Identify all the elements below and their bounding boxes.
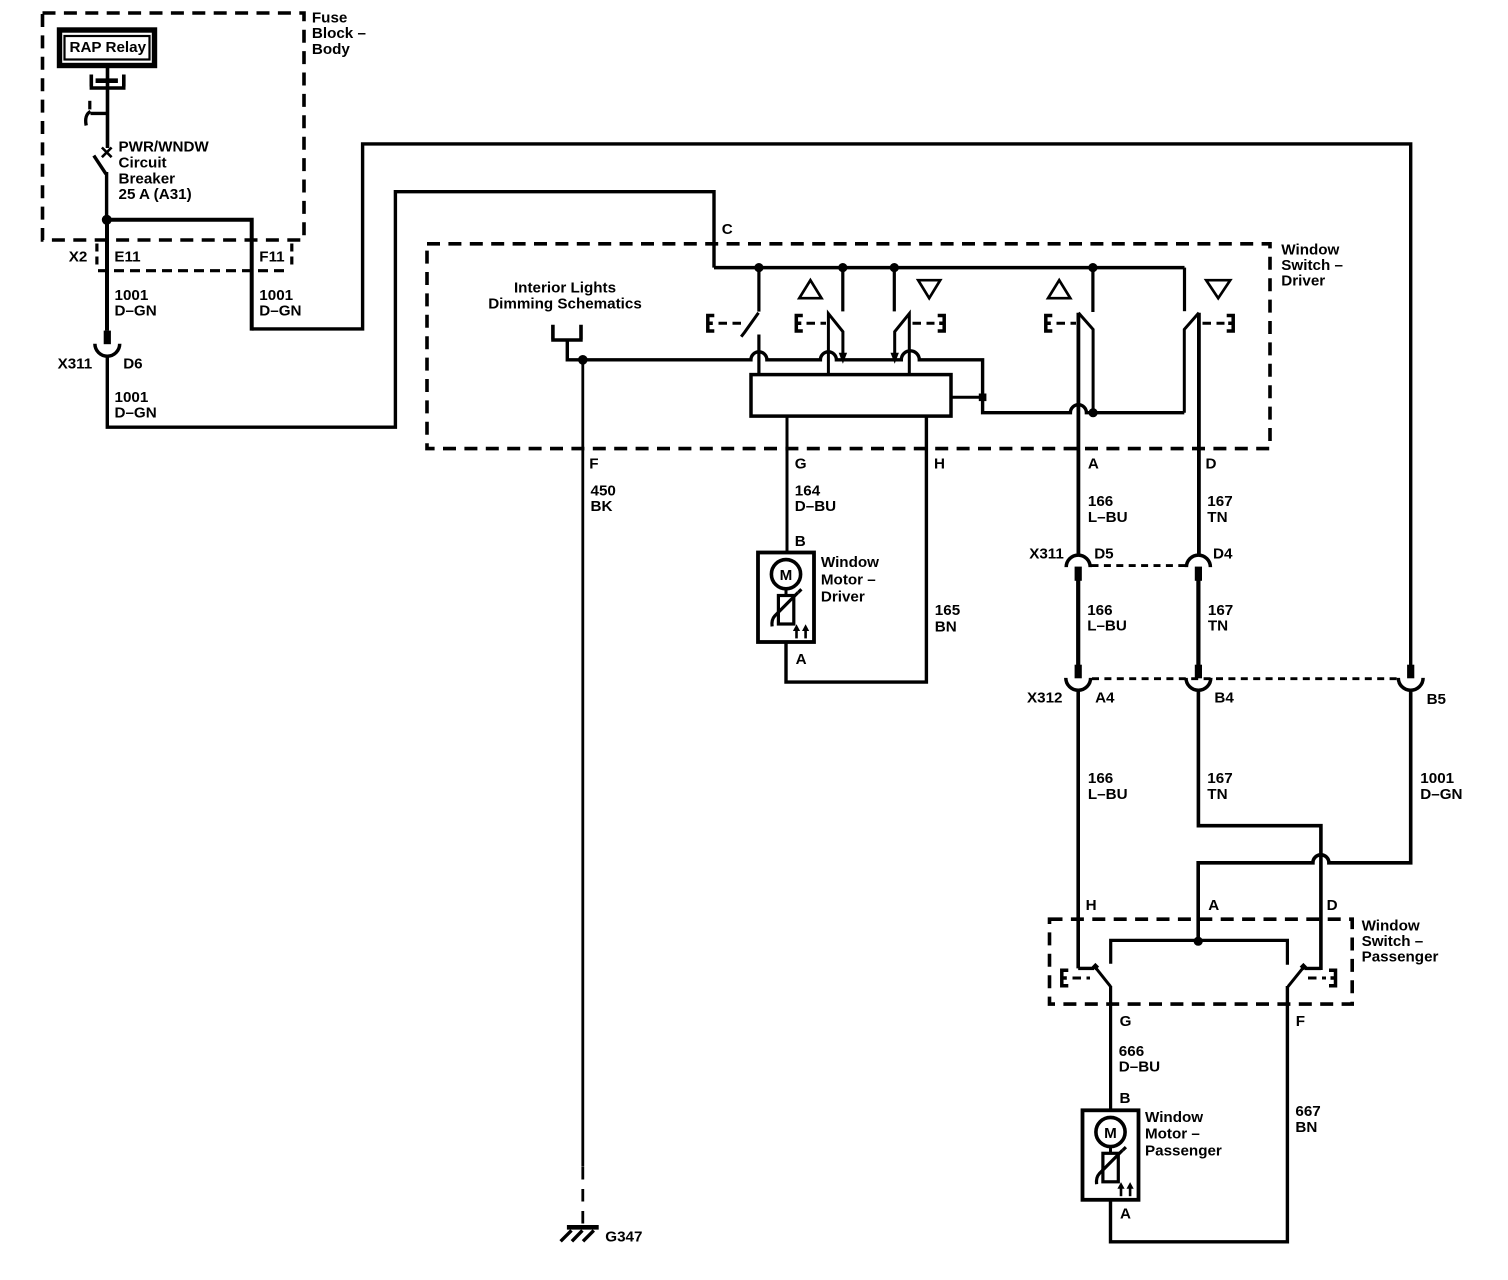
- switch 1 blade: [741, 313, 758, 337]
- svg-text:164: 164: [795, 482, 821, 499]
- svg-text:X2: X2: [69, 248, 88, 265]
- svg-text:Motor –: Motor –: [1145, 1126, 1200, 1143]
- svg-text:D–BU: D–BU: [795, 498, 836, 515]
- pin C: [722, 221, 733, 238]
- pin A (driver): [1088, 456, 1099, 473]
- svg-text:Block –: Block –: [312, 25, 366, 42]
- label 1001 D-GN (B5): [1420, 770, 1462, 803]
- label 1001 D-GN (X311 out): [115, 389, 157, 422]
- svg-text:1001: 1001: [115, 287, 149, 304]
- label 1001 D-GN (E11): [115, 287, 157, 320]
- label 167 TN (1): [1207, 493, 1232, 526]
- wire 1001 D-GN to C pin: [107, 192, 714, 428]
- svg-text:M: M: [1104, 1125, 1117, 1142]
- dashed link X312 row: [1092, 677, 1397, 680]
- junction node sw3: [890, 263, 899, 272]
- down arrow symbol 1: [918, 280, 940, 298]
- junction node interior lights: [578, 355, 588, 365]
- pin A (driver motor): [796, 651, 807, 668]
- svg-text:Fuse: Fuse: [312, 10, 347, 27]
- switch 1 lower stub: [757, 335, 760, 375]
- junction node sw4: [1088, 263, 1097, 272]
- pin D5: [1094, 545, 1114, 562]
- label 167 TN (2): [1208, 602, 1233, 635]
- svg-text:Interior Lights: Interior Lights: [514, 280, 616, 297]
- passenger switch left corner: [1078, 967, 1094, 970]
- svg-text:Window: Window: [1145, 1109, 1203, 1126]
- wire 164 D-BU: [786, 416, 789, 552]
- svg-text:Circuit: Circuit: [119, 155, 167, 172]
- svg-text:450: 450: [591, 482, 616, 499]
- passenger switch right linkage: [1308, 970, 1336, 986]
- pin D (passenger): [1327, 897, 1338, 914]
- label G347: [605, 1229, 642, 1246]
- label Window Motor - Driver: [821, 554, 879, 606]
- svg-text:D: D: [1327, 897, 1338, 914]
- dashed link X311 row: [1092, 564, 1186, 567]
- passenger contact rail: [1111, 940, 1288, 964]
- wire 166 L-BU (mid): [1076, 580, 1080, 665]
- svg-text:F11: F11: [259, 248, 285, 265]
- switch 2 stub: [841, 268, 844, 312]
- passenger switch left pivot: [1092, 963, 1099, 970]
- label Window Switch - Passenger: [1362, 917, 1439, 965]
- pin D6: [123, 355, 142, 372]
- label PWR/WNDW Circuit Breaker: [119, 139, 210, 203]
- window motor passenger: [1083, 1110, 1139, 1200]
- up arrow symbol 1: [799, 280, 821, 298]
- svg-text:667: 667: [1295, 1103, 1320, 1120]
- relay switch arm: [86, 101, 108, 126]
- svg-text:G: G: [1120, 1013, 1132, 1030]
- svg-text:166: 166: [1088, 770, 1113, 787]
- svg-text:166: 166: [1088, 493, 1113, 510]
- window motor driver: [758, 553, 814, 643]
- switch 3 linkage: [913, 316, 945, 332]
- svg-text:B5: B5: [1427, 691, 1447, 708]
- wire 167 TN (D pin): [1197, 313, 1201, 555]
- svg-text:D: D: [1206, 456, 1217, 473]
- pin B (driver motor): [795, 533, 806, 550]
- svg-text:Motor –: Motor –: [821, 571, 876, 588]
- label Window Switch - Driver: [1281, 241, 1343, 289]
- svg-text:L–BU: L–BU: [1088, 509, 1128, 526]
- pin A4: [1095, 690, 1115, 707]
- wire 666 D-BU: [1109, 986, 1112, 1110]
- svg-text:1001: 1001: [259, 287, 293, 304]
- label X2: [69, 248, 88, 265]
- svg-text:D4: D4: [1213, 545, 1233, 562]
- wire 1001 D-GN from E11: [105, 220, 109, 331]
- svg-text:Window: Window: [1362, 917, 1420, 934]
- svg-text:D5: D5: [1094, 545, 1114, 562]
- wire breaker to junction: [105, 172, 108, 220]
- pin F: [589, 456, 598, 473]
- svg-text:M: M: [780, 567, 793, 584]
- label 166 L-BU (3): [1088, 770, 1128, 803]
- svg-text:Switch –: Switch –: [1281, 257, 1343, 274]
- connector X311 D5: [1066, 555, 1090, 581]
- connector X312 B5: [1398, 665, 1423, 691]
- svg-text:F: F: [589, 456, 598, 473]
- svg-text:Passenger: Passenger: [1145, 1143, 1222, 1160]
- pin B4: [1214, 690, 1234, 707]
- connector X2 row: [97, 244, 292, 271]
- switch 2 arrowhead: [839, 353, 847, 364]
- wire interior lights bus: [583, 351, 1185, 413]
- pin B (passenger motor): [1120, 1090, 1131, 1107]
- switch 5 linkage: [1203, 316, 1234, 332]
- circuit breaker PWR/WNDW: [94, 148, 112, 175]
- wire 167 TN to passenger D: [1198, 691, 1321, 970]
- pin B5: [1427, 691, 1447, 708]
- svg-text:BN: BN: [935, 619, 957, 636]
- svg-text:Driver: Driver: [821, 589, 865, 606]
- svg-text:PWR/WNDW: PWR/WNDW: [119, 139, 210, 156]
- wire 166 L-BU (A pin): [1077, 313, 1081, 555]
- svg-text:BN: BN: [1295, 1119, 1317, 1136]
- svg-text:X311: X311: [58, 355, 93, 372]
- junction node sw1: [754, 263, 763, 272]
- connector X312 A4: [1066, 665, 1091, 691]
- svg-text:Breaker: Breaker: [119, 170, 176, 187]
- ground G347: [561, 1227, 599, 1241]
- junction node passenger A: [1194, 937, 1203, 946]
- wire 667 BN loop: [1111, 986, 1288, 1242]
- svg-text:B: B: [795, 533, 806, 550]
- label Interior Lights Dimming Schematics: [488, 280, 642, 313]
- svg-text:G: G: [795, 456, 807, 473]
- svg-text:D–GN: D–GN: [115, 405, 157, 422]
- pin H: [934, 456, 945, 473]
- label 164 D-BU: [795, 482, 836, 515]
- interior lights tap bracket: [551, 325, 583, 360]
- svg-text:D–BU: D–BU: [1119, 1059, 1160, 1076]
- svg-text:E11: E11: [114, 248, 141, 265]
- svg-text:167: 167: [1208, 602, 1233, 619]
- svg-text:B: B: [1120, 1090, 1131, 1107]
- svg-text:L–BU: L–BU: [1087, 618, 1127, 635]
- label 165 BN: [935, 602, 961, 636]
- svg-text:Driver: Driver: [1281, 273, 1325, 290]
- pin H (passenger): [1086, 897, 1097, 914]
- junction node breaker output: [102, 215, 112, 225]
- switch 4 linkage: [1046, 316, 1076, 332]
- pin A (passenger): [1208, 897, 1219, 914]
- svg-text:Dimming Schematics: Dimming Schematics: [488, 295, 642, 312]
- svg-text:1001: 1001: [1420, 770, 1454, 787]
- svg-text:A4: A4: [1095, 690, 1115, 707]
- junction node sw2: [838, 263, 847, 272]
- passenger switch left blade: [1096, 968, 1111, 986]
- svg-text:Switch –: Switch –: [1362, 933, 1424, 950]
- wire junction to F11: [107, 220, 252, 331]
- label X312 (row): [1027, 690, 1062, 707]
- wire 165 BN loop: [786, 416, 926, 682]
- wire 167 TN (mid): [1196, 580, 1200, 665]
- wire 166 L-BU to passenger H: [1076, 691, 1080, 969]
- svg-text:167: 167: [1207, 493, 1232, 510]
- label X311 (D6): [58, 355, 93, 372]
- pin F (passenger): [1296, 1013, 1305, 1030]
- connector X312 B4: [1186, 665, 1211, 691]
- label 166 L-BU (2): [1087, 602, 1127, 635]
- pin F11: [259, 248, 285, 265]
- svg-text:G347: G347: [605, 1229, 642, 1246]
- svg-text:BK: BK: [591, 498, 613, 515]
- switch assembly lead: [951, 396, 980, 399]
- svg-text:TN: TN: [1208, 618, 1228, 635]
- down arrow symbol 2: [1206, 280, 1230, 298]
- label Fuse Block - Body: [312, 10, 366, 58]
- passenger switch right corner: [1305, 967, 1321, 970]
- pin A (passenger motor): [1120, 1206, 1131, 1223]
- svg-text:H: H: [934, 456, 945, 473]
- svg-text:A: A: [1120, 1206, 1131, 1223]
- svg-text:X312: X312: [1027, 690, 1062, 707]
- svg-text:D–GN: D–GN: [115, 303, 157, 320]
- svg-text:D–GN: D–GN: [259, 303, 301, 320]
- junction node sw4 contact: [1089, 408, 1098, 417]
- switch 5 blade: [1184, 313, 1199, 413]
- svg-text:X311: X311: [1029, 545, 1064, 562]
- svg-text:RAP Relay: RAP Relay: [70, 39, 147, 56]
- svg-text:167: 167: [1207, 770, 1232, 787]
- label 667 BN: [1295, 1103, 1320, 1136]
- window switch passenger outline: [1050, 919, 1353, 1004]
- label 450 BK: [591, 482, 616, 515]
- svg-text:1001: 1001: [115, 389, 149, 406]
- svg-text:666: 666: [1119, 1043, 1144, 1060]
- svg-text:165: 165: [935, 602, 961, 619]
- label X311 (row): [1029, 545, 1064, 562]
- svg-text:D–GN: D–GN: [1420, 786, 1462, 803]
- switch 1 contact stub: [757, 268, 760, 312]
- wire RAP relay stem: [106, 68, 110, 148]
- passenger switch right pivot: [1300, 963, 1307, 970]
- switch 5 stub: [1183, 268, 1186, 312]
- svg-text:166: 166: [1087, 602, 1112, 619]
- wire 1001 D-GN F11 to B5: [252, 144, 1411, 665]
- svg-text:25 A (A31): 25 A (A31): [119, 186, 192, 203]
- connector X311 D4: [1186, 555, 1210, 581]
- svg-text:C: C: [722, 221, 733, 238]
- switch 1 linkage: [708, 316, 744, 332]
- svg-text:TN: TN: [1207, 509, 1227, 526]
- label 166 L-BU (1): [1088, 493, 1128, 526]
- svg-text:F: F: [1296, 1013, 1305, 1030]
- svg-text:Passenger: Passenger: [1362, 949, 1439, 966]
- fuse block - body outline: [43, 13, 305, 240]
- up arrow symbol 2: [1048, 280, 1070, 298]
- svg-text:A: A: [1088, 456, 1099, 473]
- label 666 D-BU: [1119, 1043, 1160, 1076]
- pin D (driver): [1206, 456, 1217, 473]
- switch assembly box: [751, 375, 951, 417]
- svg-text:Window: Window: [821, 554, 879, 571]
- svg-text:Body: Body: [312, 41, 351, 58]
- svg-text:A: A: [796, 651, 807, 668]
- pin E11: [114, 248, 141, 265]
- passenger switch right blade: [1288, 968, 1303, 986]
- svg-text:D6: D6: [123, 355, 142, 372]
- pin D4: [1213, 545, 1233, 562]
- svg-text:Window: Window: [1281, 241, 1339, 258]
- wire 1001 D-GN B5 to passenger A: [1198, 691, 1411, 941]
- pin G: [795, 456, 807, 473]
- switch 4 blade: [1078, 313, 1093, 413]
- RAP Relay block: [60, 30, 155, 66]
- switch 2 blade: [828, 314, 843, 375]
- switch 2 linkage: [796, 316, 826, 332]
- label Window Motor - Passenger: [1145, 1109, 1222, 1160]
- switch 3 blade: [895, 314, 910, 375]
- svg-text:TN: TN: [1207, 786, 1227, 803]
- junction square assembly: [979, 394, 987, 402]
- switch 4 stub: [1091, 268, 1094, 312]
- svg-text:H: H: [1086, 897, 1097, 914]
- svg-text:L–BU: L–BU: [1088, 786, 1128, 803]
- switch 3 arrowhead: [891, 353, 899, 364]
- passenger switch left linkage: [1062, 970, 1090, 986]
- window switch driver outline: [427, 244, 1270, 449]
- label 167 TN (3): [1207, 770, 1232, 803]
- relay contact bracket: [90, 75, 126, 89]
- svg-text:B4: B4: [1214, 690, 1234, 707]
- wire 450 BK: [581, 360, 584, 1225]
- svg-text:A: A: [1208, 897, 1219, 914]
- pin G (passenger): [1120, 1013, 1132, 1030]
- label 1001 D-GN (F11): [259, 287, 301, 320]
- connector X311 D6: [95, 331, 120, 357]
- bus wire C: [714, 266, 1185, 270]
- switch 3 stub: [893, 268, 896, 312]
